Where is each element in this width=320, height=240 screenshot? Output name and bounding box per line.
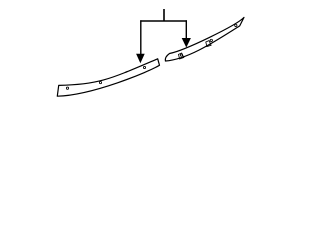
callout 1 stem <box>163 9 165 21</box>
callout bracket horizontal <box>140 20 187 22</box>
right molding strip outline <box>165 17 244 61</box>
right strip end hole <box>235 24 237 26</box>
left strip hole 3 <box>143 66 145 68</box>
callout right arrowhead <box>182 38 191 48</box>
left strip hole 1 <box>66 87 68 89</box>
right strip slot 1 hole <box>180 54 182 56</box>
right strip slot 2 hole <box>210 39 212 41</box>
callout left arrowhead <box>136 54 145 64</box>
left molding strip outline <box>57 59 159 96</box>
left strip hole 2 <box>99 82 101 84</box>
callout right drop wire <box>185 20 187 38</box>
right strip clip slot 1 <box>179 53 184 59</box>
right strip clip slot 2 <box>206 41 211 47</box>
callout left drop wire <box>140 20 142 54</box>
